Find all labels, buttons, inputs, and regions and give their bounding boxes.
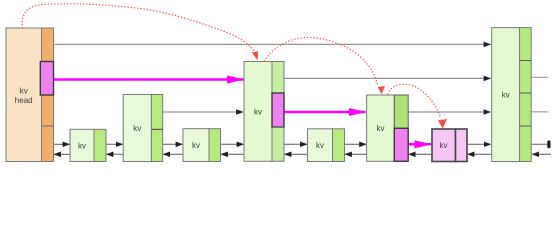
search path dotted curve node6 to node7 (388, 84, 447, 128)
wire L3 nil stub right of node8 (531, 76, 548, 78)
node kv5 (308, 129, 345, 162)
wire L1 backward node1 to head (54, 153, 70, 155)
wire L1 forward node3 to node4 (221, 143, 244, 145)
svg-text:kv: kv (254, 107, 262, 116)
wire L1 backward right edge to node8 (532, 153, 551, 155)
wire L1 backward node8 to node7 (468, 153, 492, 155)
wire L1 forward node2 to node3 (163, 143, 183, 145)
node kv3 (183, 129, 221, 162)
wire L1 backward node6 to node5 (345, 153, 367, 155)
node kv4 (244, 62, 284, 162)
wire L1 forward node8 to right edge (531, 140, 550, 148)
svg-text:kv: kv (440, 141, 448, 150)
node kv1 (70, 129, 106, 161)
wire L1 forward node7 to node8 (467, 143, 491, 145)
wire L3 magenta head to node4 (54, 78, 244, 81)
wire L2 node2 to node4 (163, 111, 243, 113)
wire L2 magenta node4 to node6 (284, 111, 366, 114)
search path dotted curve head to node4 (22, 4, 258, 61)
svg-text:kv: kv (192, 141, 200, 150)
wire L4 head to node8 (54, 43, 491, 45)
wire L1 backward node3 to node2 (163, 153, 183, 155)
wire L1 backward node7 to node6 (409, 153, 432, 155)
wire L2 node6 to node8 (408, 111, 490, 113)
wire L1 backward node5 to node4 (285, 153, 308, 155)
wire L2 nil stub right of node8 (531, 111, 548, 113)
node head (6, 28, 54, 162)
node kv6 (367, 95, 409, 161)
wire L1 forward node4 to node5 (284, 143, 307, 145)
wire L3 node4 to node8 (284, 77, 491, 79)
wire L1 backward node4 to node3 (221, 153, 244, 155)
svg-text:kv: kv (377, 124, 385, 133)
wire L1 forward node1 to node2 (106, 143, 123, 145)
node kv7 new pink node (432, 129, 467, 162)
search path dotted curve node4 to node6 (265, 37, 386, 94)
wire L1 forward node5 to node6 (345, 143, 367, 145)
node kv2 (123, 95, 163, 162)
wire L1 forward head to node1 (54, 143, 70, 145)
svg-text:kv: kv (502, 91, 510, 100)
wire L1 magenta forward node6 to node7 (408, 143, 431, 146)
svg-text:kv: kv (20, 87, 28, 96)
svg-text:kv: kv (133, 124, 141, 133)
svg-text:kv: kv (316, 141, 324, 150)
svg-text:head: head (15, 96, 33, 105)
svg-text:kv: kv (78, 141, 86, 150)
wire L1 backward node2 to node1 (107, 153, 124, 155)
node kv8 tall right (492, 28, 532, 162)
